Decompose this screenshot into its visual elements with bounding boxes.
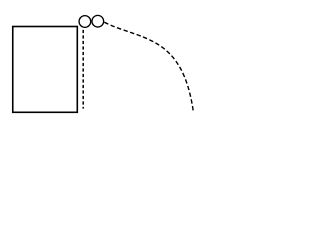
- rectangle: [13, 27, 78, 113]
- circle right: [92, 15, 104, 27]
- dashed vertical line: [82, 30, 84, 109]
- dashed curve: [104, 22, 193, 111]
- circle left: [79, 16, 91, 28]
